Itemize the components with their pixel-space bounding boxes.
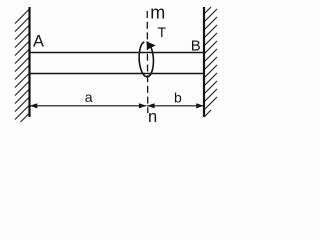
svg-text:b: b [174, 90, 182, 106]
section line m-n (dashed) [146, 11, 149, 113]
dimension b left arrowhead [147, 103, 155, 108]
svg-text:n: n [148, 108, 157, 126]
left wall line [28, 7, 30, 117]
shaft bottom line [30, 73, 205, 75]
torque arc [138, 41, 154, 77]
shaft top line [30, 52, 205, 54]
left wall hatching [15, 9, 30, 122]
right wall hatching [204, 7, 217, 117]
dimension a left arrowhead [30, 103, 38, 108]
dimension a right arrowhead [139, 103, 147, 108]
dimension b right arrowhead [196, 103, 204, 108]
svg-text:T: T [158, 24, 167, 40]
dimension line a [30, 105, 147, 107]
svg-text:A: A [33, 33, 44, 51]
svg-text:B: B [191, 37, 201, 54]
torque arrowhead [146, 41, 156, 49]
svg-text:m: m [150, 2, 165, 22]
svg-text:a: a [85, 89, 93, 105]
dimension line b [147, 105, 204, 107]
right wall line [203, 7, 205, 117]
